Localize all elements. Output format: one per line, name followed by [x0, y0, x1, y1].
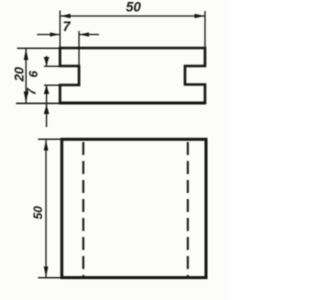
bottom view outline [62, 139, 206, 277]
svg-text:20: 20 [12, 66, 27, 82]
extension of notch top to left [44, 65, 60, 67]
svg-text:7: 7 [25, 87, 39, 95]
arrow left of dim 50 top [61, 14, 71, 18]
arrow up at top of dim 50 bottom view [44, 140, 49, 150]
arrow down at bottom of dim 50 bottom view [44, 267, 49, 277]
svg-text:6: 6 [27, 71, 41, 78]
svg-text:50: 50 [126, 0, 142, 15]
dimension line 7 top left part [37, 34, 60, 36]
extension of bottom view bottom edge to left [38, 277, 62, 279]
arrow up at top of dim 20 [24, 49, 29, 60]
extension of top edge to left [17, 47, 60, 49]
arrow down at bottom of dim 20 [24, 92, 29, 103]
extension line notch inner edge up [78, 31, 80, 66]
arrow pointing left at x79 [80, 32, 90, 36]
extension of bottom edge to left [16, 102, 60, 104]
carrier line above notch for dim 6 [46, 56, 48, 66]
extension line right edge up [204, 11, 206, 48]
hidden dashed line right [187, 142, 189, 277]
arrow pointing right at x60 [50, 32, 60, 36]
extension of bottom view top edge to left [38, 138, 62, 140]
dimension line 20 [25, 49, 27, 104]
extension line left edge up [59, 11, 61, 49]
dimension line 50 left of bottom view [45, 140, 47, 277]
hidden dashed line left [82, 142, 84, 277]
svg-text:50: 50 [31, 206, 45, 220]
dimension line 50 top [60, 15, 205, 17]
arrow right of dim 50 top [195, 14, 205, 18]
top view outline [60, 48, 205, 103]
svg-text:7: 7 [63, 19, 72, 34]
top view bottom edge (thicker) [60, 102, 206, 105]
arrow up at bottom edge [44, 105, 49, 114]
arrow up at notch bottom [44, 85, 49, 94]
extension of notch bottom to left [44, 84, 60, 86]
arrow down at notch top [44, 57, 49, 66]
carrier line below notch for dims 6 and 7 [46, 85, 48, 127]
dimension line 7 top right part [79, 34, 99, 36]
